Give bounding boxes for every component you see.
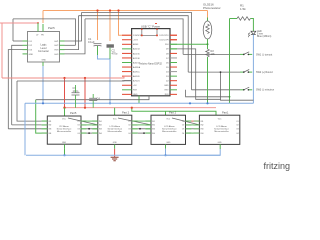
svg-text:IN2: IN2 xyxy=(99,125,102,127)
svg-text:O1: O1 xyxy=(182,121,184,123)
svg-text:LCD Alarm: LCD Alarm xyxy=(110,125,121,128)
svg-text:A2/D16: A2/D16 xyxy=(133,57,141,60)
svg-text:GND: GND xyxy=(113,142,118,144)
svg-text:A6/D20: A6/D20 xyxy=(133,75,141,78)
svg-text:IN1: IN1 xyxy=(99,121,102,123)
svg-text:Part 2: Part 2 xyxy=(122,111,130,115)
svg-text:Microcontroller: Microcontroller xyxy=(214,130,229,133)
svg-text:A1/D15: A1/D15 xyxy=(133,52,141,55)
svg-text:O4: O4 xyxy=(182,133,184,135)
svg-text:IN2: IN2 xyxy=(201,125,204,127)
svg-text:O2: O2 xyxy=(182,125,184,127)
svg-text:Microcontroller: Microcontroller xyxy=(162,130,177,133)
svg-text:Arduino Nano ESP32: Arduino Nano ESP32 xyxy=(139,63,162,66)
svg-text:SW3 ( ) minuteur: SW3 ( ) minuteur xyxy=(256,89,274,92)
svg-text:A0/D14: A0/D14 xyxy=(133,48,141,51)
svg-text:IN1: IN1 xyxy=(49,121,52,123)
svg-text:IN3: IN3 xyxy=(99,129,102,131)
svg-text:Part5: Part5 xyxy=(48,26,55,30)
svg-text:A7/D21: A7/D21 xyxy=(133,80,141,83)
svg-text:O1: O1 xyxy=(236,121,238,123)
svg-text:Part1: Part1 xyxy=(222,111,229,115)
svg-text:GND: GND xyxy=(62,142,67,144)
svg-text:I2C Alarm: I2C Alarm xyxy=(59,125,69,128)
svg-text:Converter: Converter xyxy=(38,50,49,53)
svg-text:1.5k: 1.5k xyxy=(240,7,246,11)
svg-text:O2: O2 xyxy=(128,125,130,127)
svg-text:A3/D17: A3/D17 xyxy=(133,61,141,64)
svg-text:Part 2: Part 2 xyxy=(169,111,177,115)
svg-text:GND: GND xyxy=(164,85,169,87)
svg-text:O3: O3 xyxy=(182,129,184,131)
svg-text:GND: GND xyxy=(166,142,171,144)
svg-text:IN4: IN4 xyxy=(201,133,204,135)
svg-text:D12/CIPO: D12/CIPO xyxy=(159,35,169,37)
svg-text:IN2: IN2 xyxy=(152,125,155,127)
svg-text:0.1uF: 0.1uF xyxy=(88,40,95,44)
svg-text:IN2: IN2 xyxy=(49,125,52,127)
svg-text:AREF: AREF xyxy=(133,43,139,46)
svg-text:A5/SCL: A5/SCL xyxy=(133,71,141,74)
svg-text:O4: O4 xyxy=(77,133,79,135)
svg-text:O2: O2 xyxy=(77,125,79,127)
svg-text:SW2 (+) Round: SW2 (+) Round xyxy=(256,71,273,74)
svg-text:SW1 ( ) turnout: SW1 ( ) turnout xyxy=(256,53,273,56)
svg-text:Serial Interface: Serial Interface xyxy=(107,128,122,131)
svg-text:LCD Alarm: LCD Alarm xyxy=(164,125,175,128)
svg-text:IN4: IN4 xyxy=(152,133,155,135)
svg-text:470u: 470u xyxy=(112,51,118,55)
svg-text:LCD Alarm: LCD Alarm xyxy=(216,125,227,128)
svg-text:O4: O4 xyxy=(128,133,130,135)
svg-text:O3: O3 xyxy=(236,129,238,131)
svg-text:Blue (430nm): Blue (430nm) xyxy=(257,35,272,38)
svg-text:O4: O4 xyxy=(236,133,238,135)
svg-text:10k: 10k xyxy=(211,52,216,56)
svg-text:O3: O3 xyxy=(128,129,130,131)
svg-text:IN4: IN4 xyxy=(49,133,52,135)
svg-text:Serial Interface: Serial Interface xyxy=(162,128,177,131)
svg-text:D13/SCK: D13/SCK xyxy=(133,35,142,37)
svg-text:IN4: IN4 xyxy=(99,133,102,135)
svg-text:fritzing: fritzing xyxy=(264,161,291,171)
svg-text:GND: GND xyxy=(29,54,34,56)
svg-text:O3: O3 xyxy=(77,129,79,131)
svg-text:O1: O1 xyxy=(128,121,130,123)
svg-text:A4/SDA: A4/SDA xyxy=(133,66,141,69)
svg-text:Serial Interface: Serial Interface xyxy=(214,128,229,131)
svg-text:GND: GND xyxy=(133,94,138,96)
svg-text:IN3: IN3 xyxy=(49,129,52,131)
svg-text:D11/COPI: D11/COPI xyxy=(160,40,169,42)
svg-text:IN3: IN3 xyxy=(152,129,155,131)
svg-text:GND: GND xyxy=(218,142,223,144)
svg-text:IN3: IN3 xyxy=(201,129,204,131)
svg-text:O1: O1 xyxy=(77,121,79,123)
svg-text:USB "C" Power: USB "C" Power xyxy=(141,25,160,29)
svg-text:Part5: Part5 xyxy=(70,111,77,115)
svg-text:IN1: IN1 xyxy=(201,121,204,123)
svg-text:GND: GND xyxy=(42,60,47,62)
svg-text:Photoresistor: Photoresistor xyxy=(203,6,221,10)
svg-text:Microcontroller: Microcontroller xyxy=(108,130,123,133)
svg-text:Serial Interface: Serial Interface xyxy=(57,128,72,131)
svg-text:O2: O2 xyxy=(236,125,238,127)
svg-text:Microcontroller: Microcontroller xyxy=(57,130,72,133)
svg-text:IN1: IN1 xyxy=(152,121,155,123)
